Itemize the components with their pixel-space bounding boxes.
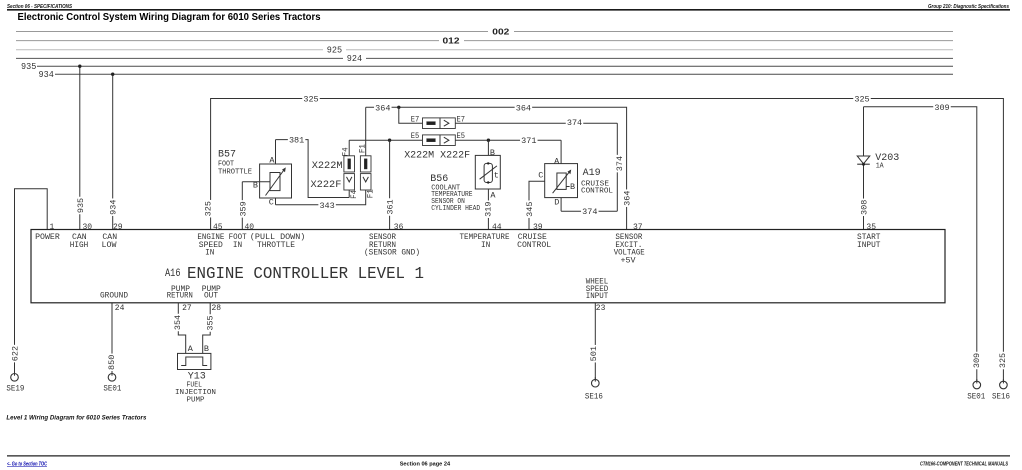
svg-text:SE01: SE01 [103, 385, 121, 394]
svg-text:308: 308 [860, 200, 870, 215]
svg-text:F1: F1 [357, 144, 367, 153]
svg-text:B: B [570, 182, 575, 192]
svg-text:A: A [554, 156, 560, 166]
svg-text:30: 30 [83, 223, 93, 232]
svg-text:934: 934 [109, 200, 119, 215]
svg-text:40: 40 [245, 223, 255, 232]
svg-text:45: 45 [213, 223, 223, 232]
svg-text:325: 325 [998, 353, 1008, 368]
svg-text:501: 501 [589, 346, 599, 361]
svg-text:GROUND: GROUND [100, 291, 128, 300]
svg-text:309: 309 [972, 353, 982, 368]
svg-text:IN: IN [205, 249, 214, 258]
svg-text:E7: E7 [411, 115, 420, 124]
svg-text:X222F: X222F [311, 179, 342, 191]
svg-text:002: 002 [492, 26, 509, 36]
svg-text:ENGINE CONTROLLER LEVEL 1: ENGINE CONTROLLER LEVEL 1 [187, 265, 424, 284]
svg-text:Section 06 page 24: Section 06 page 24 [400, 461, 451, 467]
svg-text:28: 28 [212, 304, 222, 313]
svg-text:935: 935 [21, 62, 36, 72]
svg-text:E5: E5 [411, 132, 420, 141]
svg-text:35: 35 [866, 223, 876, 232]
svg-text:F4: F4 [340, 147, 350, 156]
svg-text:354: 354 [173, 315, 183, 330]
svg-text:23: 23 [596, 304, 606, 313]
svg-text:F4: F4 [349, 190, 359, 199]
svg-text:374: 374 [582, 207, 597, 217]
svg-text:IN: IN [233, 241, 242, 250]
svg-text:364: 364 [375, 103, 390, 113]
svg-text:37: 37 [633, 223, 643, 232]
svg-text:THROTTLE: THROTTLE [257, 241, 295, 250]
svg-text:27: 27 [182, 304, 192, 313]
svg-text:319: 319 [483, 202, 493, 217]
svg-text:Group 210: Diagnostic Specific: Group 210: Diagnostic Specifications [928, 4, 1009, 10]
svg-text:B: B [204, 344, 209, 354]
svg-text:CTM166-COMPONENT TECHNICAL MAN: CTM166-COMPONENT TECHNICAL MANUALS [920, 461, 1008, 467]
svg-text:C: C [269, 197, 274, 207]
svg-text:325: 325 [303, 95, 318, 105]
svg-text:381: 381 [289, 136, 304, 146]
svg-text:924: 924 [347, 54, 362, 64]
svg-text:X222M: X222M [312, 160, 343, 172]
svg-text:374: 374 [567, 118, 582, 128]
svg-text:309: 309 [934, 103, 949, 113]
svg-text:FOOT: FOOT [218, 161, 234, 169]
svg-text:925: 925 [327, 45, 342, 55]
svg-text:A16: A16 [165, 268, 181, 280]
svg-text:CONTROL: CONTROL [517, 241, 551, 250]
svg-text:361: 361 [386, 199, 396, 214]
svg-text:CYLINDER HEAD: CYLINDER HEAD [431, 205, 480, 213]
svg-text:INPUT: INPUT [586, 292, 609, 301]
svg-text:374: 374 [615, 156, 625, 171]
svg-text:325: 325 [204, 201, 214, 216]
svg-text:B: B [490, 148, 495, 158]
svg-text:A: A [269, 156, 275, 166]
svg-text:364: 364 [623, 191, 633, 206]
svg-text:850: 850 [107, 355, 117, 370]
svg-text:PUMP: PUMP [187, 397, 205, 405]
svg-text:364: 364 [516, 103, 531, 113]
svg-text:29: 29 [113, 223, 123, 232]
svg-text:24: 24 [115, 304, 125, 313]
svg-text:THROTTLE: THROTTLE [218, 169, 252, 177]
svg-text:SE16: SE16 [585, 392, 603, 401]
svg-text:OUT: OUT [204, 292, 218, 301]
svg-text:A19: A19 [583, 168, 601, 179]
svg-text:359: 359 [238, 201, 248, 216]
svg-text:012: 012 [443, 36, 460, 46]
svg-text:D: D [554, 198, 559, 208]
svg-text:(SENSOR GND): (SENSOR GND) [364, 249, 420, 258]
svg-text:B57: B57 [218, 149, 236, 160]
svg-text:<- Go to Section TOC: <- Go to Section TOC [7, 461, 47, 467]
svg-text:HIGH: HIGH [70, 241, 89, 250]
svg-text:36: 36 [394, 223, 404, 232]
svg-text:622: 622 [11, 346, 21, 361]
svg-text:343: 343 [319, 201, 334, 211]
svg-text:C: C [538, 171, 543, 181]
svg-text:325: 325 [854, 95, 869, 105]
svg-text:t: t [494, 170, 499, 180]
svg-text:POWER: POWER [35, 233, 60, 242]
svg-text:Section 06 - SPECIFICATIONS: Section 06 - SPECIFICATIONS [7, 4, 72, 10]
svg-text:SE01: SE01 [967, 393, 985, 402]
svg-text:B: B [253, 181, 258, 191]
svg-text:CONTROL: CONTROL [581, 187, 613, 195]
svg-text:RETURN: RETURN [167, 292, 193, 301]
svg-text:A: A [188, 344, 194, 354]
svg-text:44: 44 [492, 223, 502, 232]
svg-text:1: 1 [50, 223, 55, 232]
svg-text:345: 345 [525, 202, 535, 217]
svg-text:371: 371 [521, 136, 536, 146]
svg-text:1A: 1A [876, 163, 884, 171]
svg-text:935: 935 [76, 198, 86, 213]
svg-text:Electronic Control System Wiri: Electronic Control System Wiring Diagram… [18, 11, 321, 23]
svg-text:LOW: LOW [102, 241, 117, 250]
svg-text:INPUT: INPUT [857, 241, 881, 250]
svg-text:355: 355 [205, 315, 215, 330]
svg-text:SE16: SE16 [992, 393, 1010, 402]
svg-text:39: 39 [533, 223, 543, 232]
svg-text:934: 934 [39, 70, 54, 80]
svg-text:A: A [490, 190, 496, 200]
svg-text:SE19: SE19 [6, 385, 24, 394]
svg-text:F1: F1 [366, 189, 376, 198]
svg-text:+5V: +5V [621, 257, 636, 266]
svg-text:IN: IN [481, 241, 490, 250]
svg-text:X222M X222F: X222M X222F [404, 151, 470, 162]
svg-text:Level 1 Wiring Diagram for 601: Level 1 Wiring Diagram for 6010 Series T… [6, 415, 146, 422]
